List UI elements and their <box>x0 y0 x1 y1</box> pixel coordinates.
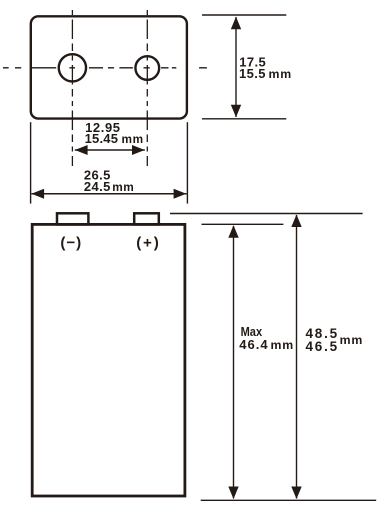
arrowhead right (24.5) <box>174 189 187 199</box>
svg-text:46.5: 46.5 <box>306 339 339 354</box>
positive terminal circle (top view) <box>135 56 159 80</box>
dimension line Max 46.4 <box>233 226 235 499</box>
battery body (front view) <box>32 224 185 496</box>
arrowhead left (12.95) <box>75 145 88 155</box>
arrowhead up (Max) <box>228 225 238 238</box>
arrowhead down (Max) <box>228 487 238 500</box>
arrowhead down (17.5) <box>231 105 241 118</box>
extension line right (24.5 dim) <box>186 122 188 203</box>
svg-text:46.4mm: 46.4mm <box>239 337 294 352</box>
extension line left (24.5 dim) <box>30 122 32 203</box>
top view outline <box>31 16 187 118</box>
extension line body top (Max dim) <box>202 223 284 225</box>
svg-text:24.5mm: 24.5mm <box>84 179 134 194</box>
arrowhead right (12.95) <box>132 145 145 155</box>
svg-text:(−): (−) <box>60 235 82 252</box>
extension line bottom (front view) <box>201 499 377 501</box>
vertical centerline right <box>146 10 148 166</box>
arrowhead down (48.5) <box>291 487 301 500</box>
arrowhead up (48.5) <box>291 215 301 228</box>
svg-text:15.45mm: 15.45mm <box>85 131 144 146</box>
dimension line 48.5 <box>296 215 298 499</box>
dimension line 17.5 <box>235 17 237 117</box>
horizontal centerline <box>3 67 207 69</box>
negative terminal bump <box>57 213 88 224</box>
extension line top right (17.5 dim, top) <box>202 14 286 16</box>
svg-text:mm: mm <box>340 333 364 347</box>
vertical centerline left <box>71 10 73 166</box>
extension line bottom right (17.5 dim, bottom) <box>202 118 286 120</box>
svg-text:(+): (+) <box>136 235 160 252</box>
extension line bump top (48.5 dim) <box>170 213 363 215</box>
positive terminal bump <box>134 213 159 224</box>
dimension line 12.95 <box>75 149 145 151</box>
negative terminal circle (top view) <box>59 54 86 81</box>
arrowhead left (24.5) <box>31 189 44 199</box>
arrowhead up (17.5) <box>231 17 241 30</box>
svg-text:15.5mm: 15.5mm <box>239 66 292 81</box>
dimension line 24.5 <box>32 193 187 195</box>
